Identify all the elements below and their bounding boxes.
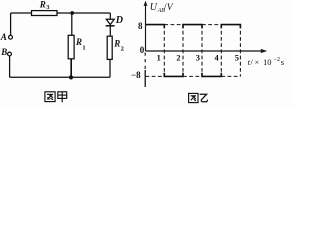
- label t/x10^-2 s: [248, 57, 285, 67]
- waveform solid -8 segment 3-4: [202, 73, 221, 77]
- y-axis arrowhead: [144, 1, 148, 6]
- waveform solid +8 segment 2-3: [183, 25, 202, 29]
- wire top-right segment: [57, 12, 110, 14]
- dashed vertical t=1: [163, 25, 165, 77]
- dashed +8 level 3-4: [202, 24, 221, 26]
- resistor R1: [68, 35, 74, 59]
- label R1: [75, 37, 86, 52]
- svg-text:5: 5: [235, 53, 239, 62]
- node junction bottom (dot): [69, 75, 73, 79]
- svg-text:R: R: [39, 0, 46, 9]
- wire top-left segment: [11, 12, 32, 14]
- y-axis lower segment (faded dashes): [144, 53, 146, 71]
- svg-text:B: B: [0, 47, 7, 57]
- wire bottom segment: [10, 76, 110, 78]
- dashed -8 level 0-1: [146, 75, 165, 77]
- dashed vertical t=3: [201, 25, 203, 77]
- svg-text:−8: −8: [131, 70, 141, 80]
- svg-text:s: s: [281, 57, 284, 67]
- svg-text:3: 3: [196, 53, 200, 62]
- node junction top (dot): [70, 11, 74, 15]
- svg-text:2: 2: [121, 45, 124, 52]
- svg-text:R: R: [113, 38, 120, 48]
- wire diode anode lead: [109, 13, 111, 20]
- dashed +8 level 1-2: [164, 24, 183, 26]
- label U_AB/V: [150, 2, 174, 14]
- y-axis: [144, 4, 146, 87]
- label R3: [39, 0, 50, 11]
- svg-text:1: 1: [157, 53, 161, 62]
- dashed vertical t=4: [220, 25, 222, 77]
- resistor R2: [107, 36, 112, 59]
- svg-text:A: A: [0, 32, 7, 42]
- waveform solid +8 segment 4-5: [221, 25, 240, 29]
- resistor R3: [32, 11, 58, 16]
- dashed vertical t=2: [182, 25, 184, 77]
- label t axis numbers: [157, 53, 239, 62]
- svg-text:1: 1: [82, 45, 85, 52]
- caption 图乙 (hand-drawn strokes): [189, 93, 208, 102]
- wire R1 bottom lead: [70, 59, 72, 78]
- dashed -8 level 4-5: [221, 75, 240, 77]
- wire terminal A lead: [10, 13, 12, 35]
- dashed -8 level 2-3: [183, 75, 202, 77]
- svg-text:2: 2: [176, 53, 180, 62]
- svg-text:×: ×: [255, 58, 260, 67]
- svg-text:8: 8: [138, 21, 143, 31]
- wire diode to R2: [109, 27, 111, 37]
- svg-text:0: 0: [140, 45, 145, 55]
- diode D: [106, 19, 114, 24]
- svg-text:10: 10: [263, 57, 272, 67]
- wire R1 top lead: [71, 13, 73, 35]
- waveform solid -8 segment 1-2: [164, 73, 183, 77]
- waveform solid +8 segment 0-1: [146, 25, 241, 77]
- wire terminal B lead: [9, 56, 11, 77]
- wire R2 bottom lead: [109, 59, 111, 77]
- x-axis: [146, 50, 265, 52]
- svg-text:−2: −2: [274, 57, 280, 63]
- svg-text:U: U: [150, 2, 158, 13]
- svg-text:D: D: [115, 15, 123, 26]
- x-axis arrowhead: [261, 49, 267, 53]
- terminal A (circle): [9, 35, 13, 39]
- svg-text:R: R: [75, 37, 82, 47]
- terminal B (circle): [8, 52, 12, 56]
- y-axis lower segment through -8: [144, 70, 146, 87]
- label R2: [113, 38, 124, 52]
- caption 图甲 (hand-drawn strokes): [45, 92, 67, 103]
- dashed vertical t=5: [239, 25, 241, 77]
